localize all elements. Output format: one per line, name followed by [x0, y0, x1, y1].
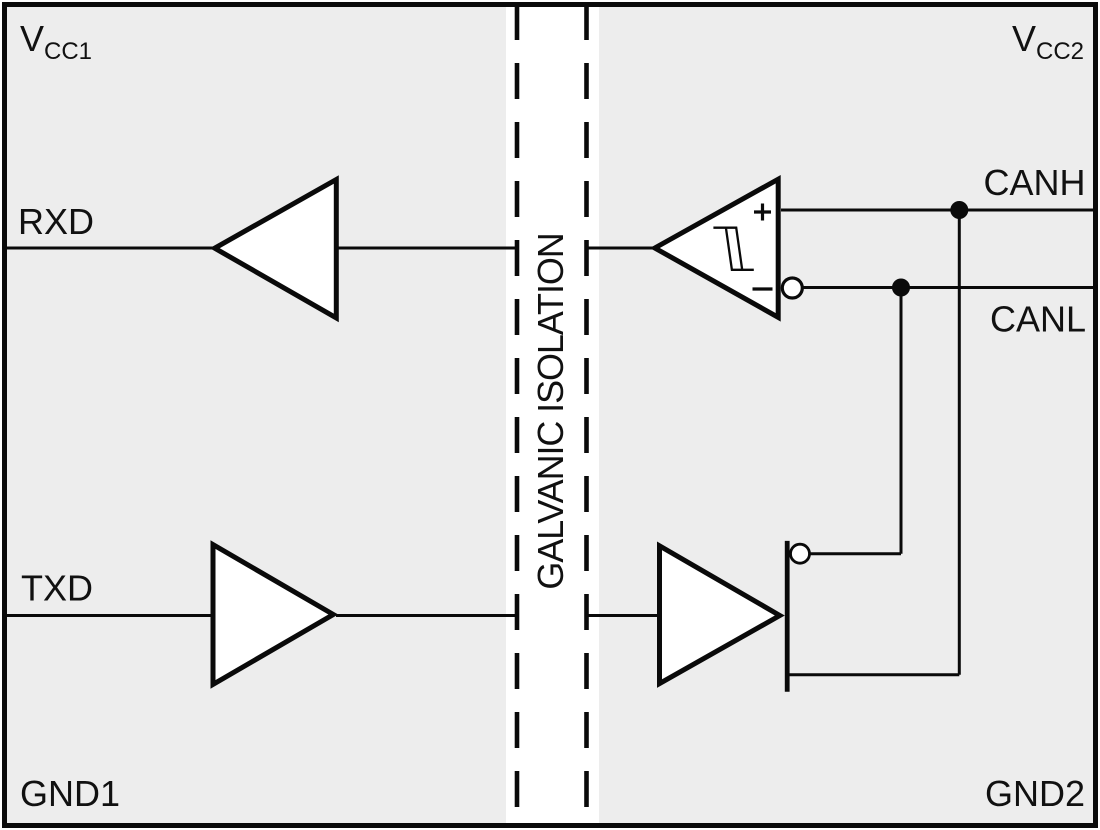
svg-text:CANL: CANL — [990, 299, 1086, 340]
svg-text:GND2: GND2 — [985, 773, 1085, 814]
svg-text:TXD: TXD — [21, 568, 93, 609]
svg-text:GND1: GND1 — [20, 773, 120, 814]
svg-text:GALVANIC ISOLATION: GALVANIC ISOLATION — [530, 233, 571, 589]
svg-text:RXD: RXD — [18, 201, 94, 242]
svg-text:CANH: CANH — [983, 162, 1085, 203]
